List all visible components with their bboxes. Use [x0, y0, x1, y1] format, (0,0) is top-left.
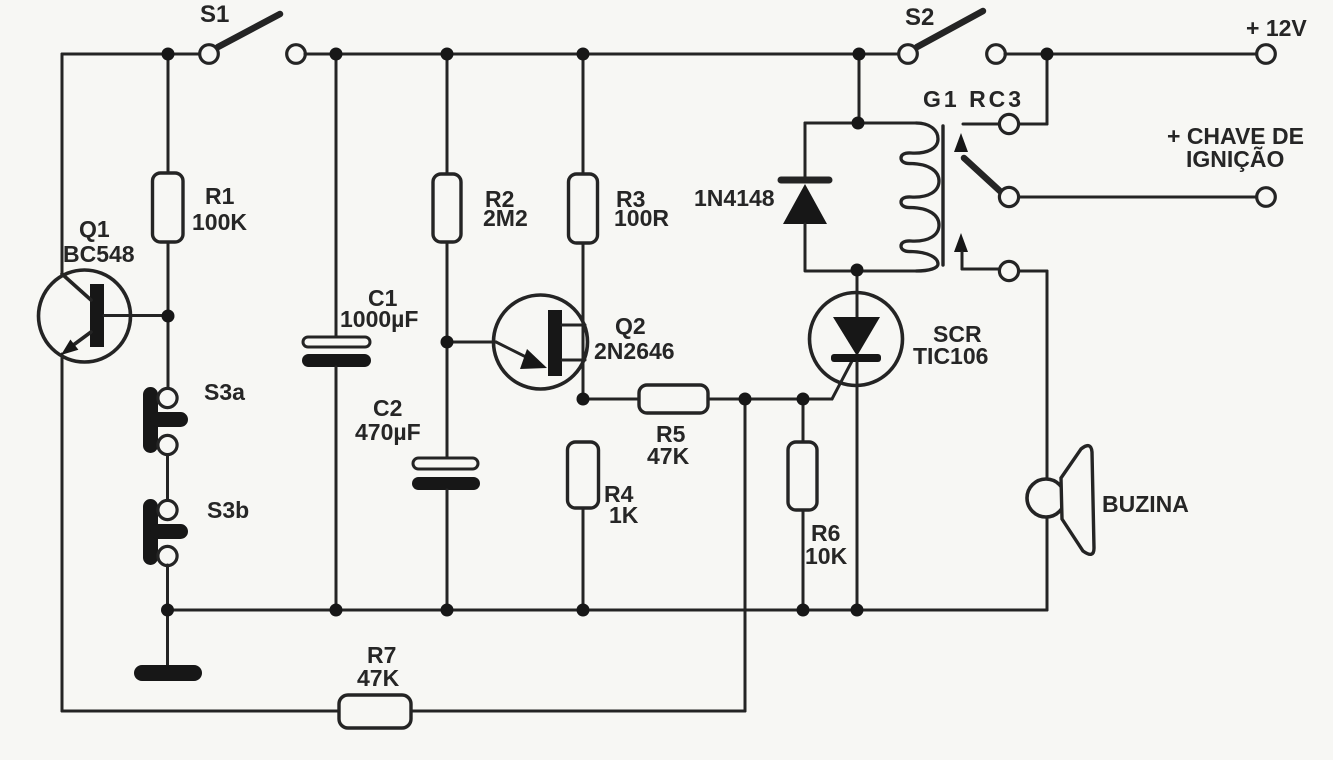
svg-text:S1: S1 — [200, 1, 229, 28]
node bottom bus R4 — [577, 604, 590, 617]
node top bus relay — [853, 48, 866, 61]
relay armature lever — [964, 158, 1019, 207]
switch S2 — [899, 11, 1006, 63]
wire gate diagonal to SCR — [832, 361, 852, 399]
svg-text:S2: S2 — [905, 4, 934, 31]
svg-text:BC548: BC548 — [63, 241, 135, 267]
wire gate horizontal left — [583, 398, 639, 401]
svg-text:BUZINA: BUZINA — [1102, 491, 1189, 517]
wire left rail vertical lower — [61, 354, 64, 711]
svg-text:Q1: Q1 — [79, 216, 110, 242]
node top bus R3 — [577, 48, 590, 61]
svg-text:1K: 1K — [609, 502, 639, 528]
svg-text:G1 RC3: G1 RC3 — [923, 86, 1024, 112]
node gate riser — [739, 393, 752, 406]
wire top bus left segment — [62, 53, 200, 56]
SCR TIC106 — [810, 293, 903, 611]
buzzer BUZINA — [1027, 446, 1094, 555]
resistor R1 — [153, 173, 184, 242]
node Q2 emitter — [441, 336, 454, 349]
resistor R2 — [433, 174, 461, 242]
svg-text:S3a: S3a — [204, 379, 245, 405]
relay core bar — [941, 126, 944, 265]
switch S3b — [143, 499, 188, 566]
svg-text:100R: 100R — [614, 205, 669, 231]
node gate R6 — [797, 393, 810, 406]
wire left rail vertical upper — [61, 54, 64, 275]
svg-text:47K: 47K — [357, 665, 400, 691]
wire R6 to bottom bus — [802, 510, 805, 610]
relay G1 coil — [805, 123, 943, 271]
wire bottom loop horizontal left — [62, 710, 339, 713]
node top bus R1 — [162, 48, 175, 61]
wire gate loop vertical riser — [744, 399, 747, 711]
node dots — [161, 48, 1054, 617]
switch S1 — [200, 14, 306, 63]
node relay top — [852, 117, 865, 130]
wire R2 to emitter node to C2 — [446, 242, 449, 458]
wire gate horizontal right — [708, 398, 832, 401]
diode 1N4148 — [781, 123, 829, 270]
terminal +12V — [1257, 45, 1276, 64]
node Q1 base — [162, 310, 175, 323]
svg-text:C2: C2 — [373, 395, 402, 421]
wire R6 top — [802, 399, 805, 442]
wire C1 to bottom bus — [335, 367, 338, 610]
resistor R3 — [569, 174, 598, 243]
wire top bus right segment to +12V — [1005, 53, 1257, 56]
wire R1 branch top — [167, 54, 170, 173]
node bottom bus C2 — [441, 604, 454, 617]
svg-text:IGNIÇÃO: IGNIÇÃO — [1186, 145, 1284, 172]
svg-text:10K: 10K — [805, 543, 848, 569]
resistor R5 — [639, 385, 708, 413]
wire R2 branch top — [446, 54, 449, 174]
wire S3b to ground — [166, 565, 169, 666]
wire C2 to bottom bus — [446, 490, 449, 610]
svg-text:TIC106: TIC106 — [913, 343, 988, 369]
svg-text:S3b: S3b — [207, 497, 249, 523]
svg-text:1N4148: 1N4148 — [694, 185, 775, 211]
transistor Q2 — [447, 295, 588, 389]
wire relay branch from top bus — [858, 54, 861, 123]
wire to ignition key terminal — [1019, 196, 1256, 199]
node gate B1 — [577, 393, 590, 406]
svg-text:R1: R1 — [205, 183, 235, 209]
transistor Q1 — [39, 270, 169, 362]
wire R3 branch top — [582, 54, 585, 174]
wire buzzer to bottom bus — [1046, 517, 1049, 610]
resistor R4 — [568, 442, 599, 508]
wire top bus middle segment — [305, 53, 899, 56]
node relay bottom — [851, 264, 864, 277]
svg-text:100K: 100K — [192, 209, 247, 235]
svg-text:+ 12V: + 12V — [1246, 15, 1307, 41]
svg-text:1000µF: 1000µF — [340, 306, 418, 332]
node bottom bus C1 — [330, 604, 343, 617]
relay contact bottom (to buzzer) — [954, 233, 1047, 281]
ground — [134, 665, 202, 681]
resistor R6 — [788, 442, 817, 510]
wire S3a to S3b — [166, 455, 169, 499]
capacitor C1 — [302, 337, 371, 367]
wire C1 branch top — [335, 54, 338, 337]
relay contact top (to +12V riser) — [954, 54, 1047, 152]
svg-text:470µF: 470µF — [355, 419, 421, 445]
node top bus +12V riser — [1041, 48, 1054, 61]
resistor R7 — [339, 695, 411, 728]
node top bus C1 — [330, 48, 343, 61]
switch S3a — [143, 387, 188, 455]
wire R3 down through Q2 to gate node — [582, 243, 585, 399]
wire buzzer branch vertical — [1046, 271, 1049, 479]
capacitor C2 — [412, 458, 480, 490]
node top bus R2 — [441, 48, 454, 61]
wire relay bottom to SCR — [856, 270, 859, 294]
svg-text:47K: 47K — [647, 443, 690, 469]
terminal chave de ignicao — [1257, 188, 1276, 207]
svg-text:Q2: Q2 — [615, 313, 646, 339]
wire R1 to base node to S3a — [167, 242, 170, 389]
wire bottom bus — [168, 609, 1048, 612]
svg-text:2N2646: 2N2646 — [594, 338, 675, 364]
node bottom bus SCR — [851, 604, 864, 617]
node bottom bus R6 — [797, 604, 810, 617]
wire bottom loop horizontal right — [411, 710, 745, 713]
node bottom bus S3b — [161, 604, 174, 617]
wire R4 to bottom bus — [582, 508, 585, 610]
svg-text:2M2: 2M2 — [483, 205, 528, 231]
